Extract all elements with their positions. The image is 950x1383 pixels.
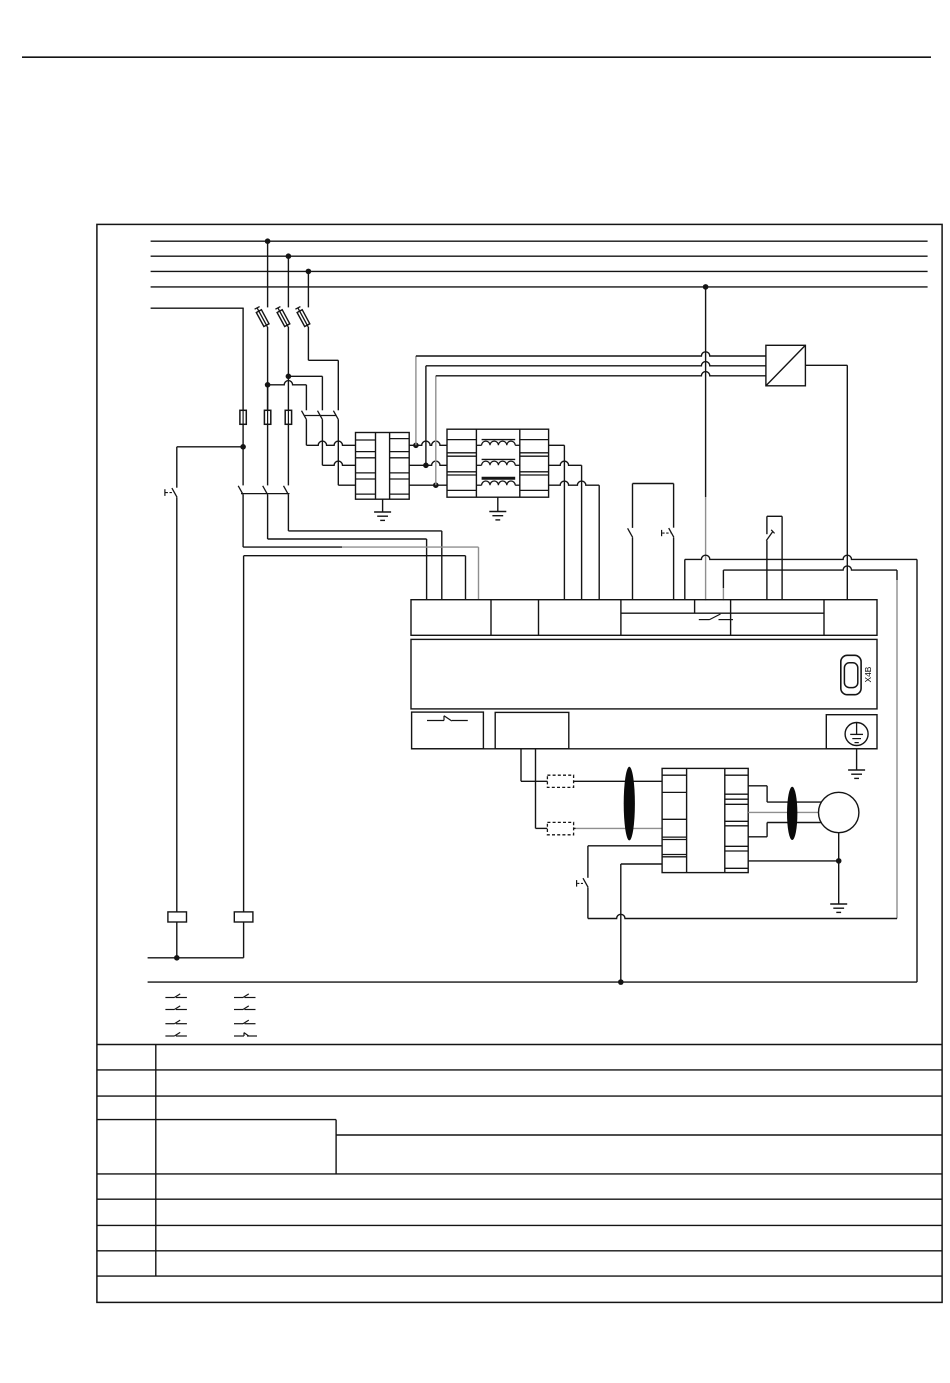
aux contact S2 — [577, 878, 589, 918]
fuse-switch F2 — [275, 307, 289, 327]
bus line N — [151, 286, 928, 288]
aux contact C2.3 — [234, 1020, 256, 1024]
wire choke out V — [549, 461, 582, 600]
page top rule — [22, 56, 931, 58]
wire below F1 — [267, 327, 269, 410]
riser wire 1 — [416, 352, 766, 445]
fuse-switch F3 — [295, 307, 309, 327]
wire choke out W — [549, 481, 600, 600]
converter unit U2 — [766, 345, 806, 386]
brake loop wire — [633, 484, 674, 528]
node return rail — [618, 979, 624, 985]
wire filter-choke 2 — [409, 461, 447, 465]
wire K1 pole3 to drive — [288, 531, 441, 600]
contactor K2 pole 2 — [318, 411, 323, 466]
drive PE cell — [826, 715, 877, 749]
contactor K1 linkage — [241, 493, 290, 495]
wire box to motor U — [748, 786, 824, 802]
contactor K1 pole 3 — [284, 486, 289, 531]
wire coil C2 to drive — [244, 556, 466, 600]
branch wire 1 — [268, 381, 307, 411]
wire K2 pole1 to filter — [306, 441, 355, 445]
node riser 2 — [423, 463, 429, 469]
node coil rail — [174, 955, 180, 961]
EMC filter Z1 — [356, 433, 410, 500]
wire to switch S1 — [177, 447, 243, 488]
wire C drive relay — [723, 566, 897, 919]
wire tap L1 — [267, 241, 269, 307]
drive PE ground wire — [848, 749, 865, 779]
node tap L1 — [265, 238, 271, 244]
motor wire U drop — [521, 749, 547, 782]
node motor PE — [836, 858, 842, 864]
motor wire V — [574, 827, 663, 829]
contactor K1 pole 2 — [263, 486, 268, 539]
aux contact C1.1 — [165, 994, 187, 998]
wire fuse F5 down — [267, 424, 269, 485]
wire drop to drive — [705, 287, 707, 600]
wire C2 riser — [243, 556, 245, 912]
wire tap L2 — [287, 256, 289, 307]
wire K1 pole1 to drive — [243, 547, 478, 600]
wire U2 output — [805, 365, 847, 599]
bus line L1 — [151, 240, 928, 242]
motor wire U — [574, 780, 663, 782]
control feed wire — [151, 308, 244, 410]
line choke L1 box — [447, 429, 549, 497]
label X4B — [863, 666, 873, 682]
aux contact C2.4 — [234, 1033, 257, 1037]
thermistor loop top — [767, 516, 782, 599]
drive control box — [495, 712, 569, 748]
wire S1 to coil C1 — [176, 497, 178, 912]
contactor K1 pole 1 — [238, 486, 243, 547]
wire K2 pole2 to filter — [322, 461, 355, 465]
filter Z1 ground — [374, 499, 391, 520]
fuse F6 — [285, 410, 291, 424]
ferrite clamp 2 — [547, 822, 573, 834]
riser wire 2 — [426, 362, 766, 466]
PE symbol — [845, 723, 868, 746]
terminal box X2 — [662, 768, 748, 872]
motor wire V drop — [536, 749, 548, 829]
aux contact C1.3 — [165, 1020, 187, 1024]
fuse F5 — [264, 410, 270, 424]
motor ground wire — [830, 833, 847, 913]
wire K1 pole2 to drive — [268, 539, 427, 600]
wire L1 down — [267, 385, 269, 411]
wire box aux 1 — [588, 846, 662, 878]
common return rail — [148, 981, 917, 983]
wire below F2 — [287, 327, 289, 376]
aux contact C2.1 — [234, 994, 256, 998]
wire tap L3 — [307, 271, 309, 307]
bus line L3 — [151, 270, 928, 272]
aux contact C1.4 — [165, 1032, 187, 1036]
drive relay contact — [699, 614, 733, 620]
loop bottom wire — [588, 914, 897, 918]
wire filter-choke 1 — [409, 441, 447, 445]
drawing frame — [97, 224, 942, 1302]
node tap N bus — [703, 284, 709, 290]
contactor K2 pole 3 — [333, 411, 338, 486]
wire box to motor W — [748, 823, 824, 837]
switch S1 — [165, 488, 177, 497]
wire box aux 2 — [621, 864, 662, 982]
wire choke out U — [549, 445, 565, 599]
choke L1 ground — [489, 497, 506, 520]
wire box PE — [748, 860, 839, 862]
wire K2 pole3 to filter — [338, 484, 355, 486]
motor M1 — [819, 792, 859, 832]
node riser 1 — [413, 443, 419, 449]
svg-text:X4B: X4B — [863, 666, 873, 682]
node phase 1 branch — [265, 382, 271, 388]
choke winding 3 — [476, 478, 519, 485]
wire fuse F4 down — [242, 424, 244, 485]
connector X4B — [841, 655, 861, 694]
drive status contact — [427, 716, 468, 721]
brake contact right — [662, 528, 674, 600]
fuse-switch F1 — [255, 307, 269, 327]
contactor K2 pole 1 — [302, 411, 307, 446]
node phase 2 branch — [286, 374, 292, 380]
legend table — [97, 1045, 942, 1277]
drive A1 terminal row — [411, 600, 877, 636]
drive A1 body — [411, 639, 877, 709]
branch wire 3 — [308, 360, 338, 410]
wire below F3 — [307, 327, 309, 360]
ferrite core T2 — [787, 787, 797, 840]
wire box to motor V — [748, 811, 820, 813]
aux contact C2.2 — [234, 1006, 256, 1010]
aux contact C1.2 — [165, 1006, 187, 1010]
drive bottom band — [411, 712, 877, 749]
node control branch — [240, 444, 246, 450]
node tap L3 — [306, 269, 312, 275]
coil return rail — [148, 957, 244, 959]
bus line L2 — [151, 255, 928, 257]
branch wire 2 — [288, 376, 322, 410]
riser wire 3 — [436, 372, 766, 486]
ferrite core T1 — [624, 767, 635, 841]
relay coil C2 — [234, 912, 253, 958]
node tap L2 — [286, 253, 292, 259]
brake contact left — [628, 528, 633, 599]
wire B drive relay — [685, 555, 917, 982]
thermistor contact — [766, 530, 774, 600]
fuse F4 — [240, 410, 246, 424]
choke winding 1 — [476, 440, 519, 446]
ferrite clamp 1 — [547, 775, 573, 787]
contactor K2 linkage — [305, 415, 337, 417]
choke winding 2 — [476, 459, 519, 465]
wire fuse F6 down — [287, 424, 289, 485]
wire L2 down — [287, 376, 289, 410]
node riser 3 — [433, 482, 439, 488]
relay coil C1 — [168, 912, 187, 958]
wire filter-choke 3 — [409, 484, 447, 486]
